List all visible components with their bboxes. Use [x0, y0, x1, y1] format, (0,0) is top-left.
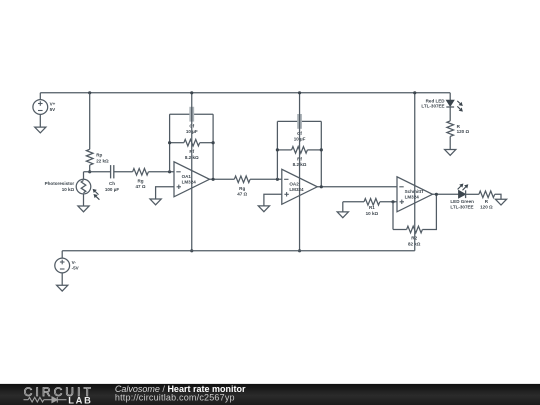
- node OA1 output feedback tap: [212, 178, 215, 181]
- wire OA1 supply vertical: [191, 93, 193, 251]
- node OA1 supply top rail: [190, 91, 193, 94]
- wire bottom V- rail: [62, 250, 415, 252]
- svg-text:OA2: OA2: [289, 182, 299, 187]
- ground at R1: [337, 212, 348, 218]
- node OA2 supply top rail: [298, 91, 301, 94]
- resistor R1 10 k&#937;: [364, 199, 380, 206]
- wire Ch to Rg: [114, 171, 133, 173]
- wire OA1 feedback left vertical: [169, 114, 171, 172]
- svg-text:Photoresistor: Photoresistor: [45, 181, 75, 186]
- Red LED LTL-307EE: [446, 100, 454, 106]
- svg-text:Rg: Rg: [137, 179, 143, 184]
- wire OA1 output: [210, 178, 235, 180]
- wire R2 right lead up to output: [422, 194, 436, 229]
- wire Rg to OA2 inverting input: [250, 178, 282, 180]
- node SchmittT + input: [391, 200, 394, 203]
- svg-text:SchmittT: SchmittT: [405, 189, 425, 194]
- svg-text:R1: R1: [369, 205, 375, 210]
- svg-text:10 kΩ: 10 kΩ: [366, 211, 379, 216]
- voltage source V- -5V: [61, 251, 63, 258]
- svg-text:22 kΩ: 22 kΩ: [96, 158, 109, 163]
- ground at OA1 + input: [150, 199, 161, 205]
- wire OA2 feedback right vertical: [320, 121, 322, 186]
- LED Green LTL-307EE: [459, 190, 466, 198]
- photoresistor 10 k&#937;: [76, 179, 91, 194]
- resistor R 120 &#937; (green): [479, 191, 495, 198]
- wire R to ground (green): [495, 194, 501, 199]
- wire red LED to R: [449, 107, 451, 121]
- svg-text:V-: V-: [72, 260, 77, 265]
- wire OA1 + input to ground: [156, 187, 174, 199]
- node OA1 feedback left: [168, 170, 171, 173]
- wire + node down to R2: [392, 202, 394, 230]
- op-amp SchmittT LM324: [397, 177, 433, 212]
- svg-text:V+: V+: [50, 102, 56, 107]
- resistor Rg 47 &#937; (interstage): [234, 176, 250, 183]
- svg-text:http://circuitlab.com/c2567yp: http://circuitlab.com/c2567yp: [115, 392, 235, 402]
- node rail-Rp: [88, 91, 91, 94]
- node SchmittT output feedback tap: [435, 193, 438, 196]
- wire OA2 supply vertical: [299, 93, 301, 251]
- svg-text:LTL-307EE: LTL-307EE: [450, 204, 473, 209]
- resistor Rf 8.2 k&#937; (OA2 feedback): [277, 149, 291, 151]
- wire SchmittT supply vertical: [414, 93, 416, 251]
- resistor Rg 47 &#937; (input): [133, 169, 149, 176]
- wire OA2 feedback top rung: [277, 120, 321, 122]
- wire R1 to + node: [380, 201, 397, 203]
- wire node down to photoresistor: [83, 172, 85, 180]
- svg-text:LAB: LAB: [68, 396, 93, 405]
- node OA2 output feedback tap: [320, 185, 323, 188]
- wire photoresistor to ground: [83, 194, 85, 206]
- wire OA2 + input to ground: [264, 194, 282, 206]
- svg-text:Rg: Rg: [239, 186, 245, 191]
- resistor R 120 &#937; (red): [447, 121, 454, 136]
- wire R to ground (red): [449, 136, 451, 149]
- CircuitLab logo doodle wire: [24, 397, 67, 403]
- node SchmittT supply top rail: [413, 91, 416, 94]
- ground below photoresistor: [78, 206, 89, 212]
- svg-text:5V: 5V: [50, 107, 56, 112]
- svg-text:LTL-307EE: LTL-307EE: [421, 104, 444, 109]
- svg-text:Rp: Rp: [96, 153, 102, 158]
- svg-text:120 Ω: 120 Ω: [457, 129, 470, 134]
- op-amp OA1 LM324: [174, 162, 210, 197]
- voltage source V+ 5V: [39, 93, 41, 100]
- svg-text:Ch: Ch: [109, 181, 115, 186]
- ground at OA2 + input: [258, 206, 269, 212]
- node OA2 Rf left: [276, 148, 279, 151]
- node OA1 Rf right: [212, 141, 215, 144]
- ground below red R: [445, 150, 456, 156]
- svg-text:-5V: -5V: [72, 265, 79, 270]
- svg-text:120 Ω: 120 Ω: [480, 204, 493, 209]
- wire Rp to node: [89, 165, 91, 172]
- wire rail to Rp: [89, 93, 91, 150]
- svg-text:100 µF: 100 µF: [105, 187, 119, 192]
- wire LED to R: [466, 193, 479, 195]
- resistor Rf 8.2 k&#937; (OA1 feedback): [170, 142, 184, 144]
- node OA1 Rf left: [168, 141, 171, 144]
- wire R2 left lead: [393, 229, 407, 231]
- capacitor Cf 10 &#181;F (OA2 feedback): [297, 114, 302, 129]
- wire OA1 feedback top rung: [170, 113, 214, 115]
- svg-text:OA1: OA1: [182, 174, 192, 179]
- svg-text:LM324: LM324: [182, 180, 197, 185]
- wire rail down to red LED: [449, 93, 451, 100]
- svg-text:LM324: LM324: [289, 187, 304, 192]
- capacitor Cf 10 &#181;F (OA1 feedback): [189, 107, 194, 122]
- node Rp-photoresistor-Ch: [88, 170, 91, 173]
- svg-text:10 kΩ: 10 kΩ: [62, 187, 75, 192]
- resistor Rp 22 k&#937;: [86, 149, 93, 165]
- wire R1 ground corner: [343, 201, 364, 203]
- ground below V+: [35, 127, 46, 133]
- ground at green LED: [495, 199, 506, 205]
- resistor R2 82 k&#937;: [407, 226, 423, 233]
- wire top V+ rail: [40, 92, 450, 94]
- wire OA1 feedback right vertical: [212, 114, 214, 179]
- ground below V-: [57, 285, 68, 291]
- wire OA2 feedback left vertical: [276, 121, 278, 179]
- wire Rg to OA1 inverting input: [148, 171, 174, 173]
- node OA2 supply bottom rail: [298, 249, 301, 252]
- node OA2 feedback left: [276, 178, 279, 181]
- wire SchmittT output: [433, 193, 459, 195]
- svg-text:LM324: LM324: [405, 195, 420, 200]
- svg-text:47 Ω: 47 Ω: [237, 192, 247, 197]
- wire OA2 output to SchmittT: [317, 186, 397, 188]
- capacitor Ch 100 &#181;F: [110, 165, 112, 178]
- op-amp OA2 LM324: [282, 169, 318, 204]
- node OA1 supply bottom rail: [190, 249, 193, 252]
- wire node to Ch: [84, 171, 111, 173]
- svg-text:47 Ω: 47 Ω: [136, 184, 146, 189]
- node OA2 Rf right: [320, 148, 323, 151]
